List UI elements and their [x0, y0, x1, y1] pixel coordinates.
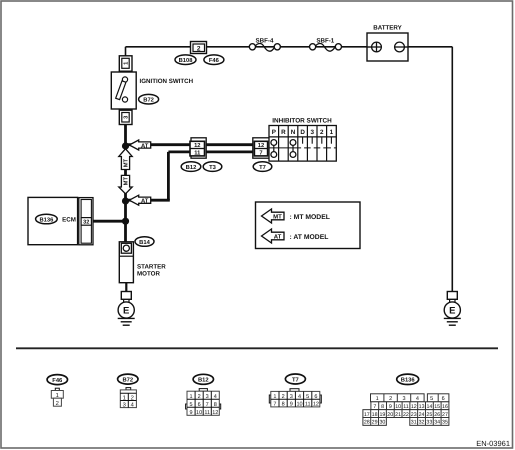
label ellipse B72 [139, 94, 159, 104]
legend AT arrow [262, 229, 285, 243]
ECM connector column [79, 198, 93, 245]
ground left (E) [118, 292, 135, 326]
pinout B72 [118, 374, 138, 409]
svg-text:F46: F46 [52, 377, 63, 384]
svg-text:28: 28 [364, 420, 370, 426]
separator line [16, 347, 498, 349]
svg-text:STARTER: STARTER [137, 264, 166, 271]
svg-text:E: E [449, 306, 455, 317]
svg-text:: AT MODEL: : AT MODEL [290, 234, 329, 241]
svg-text:B72: B72 [122, 376, 133, 383]
svg-text:3: 3 [310, 129, 314, 136]
svg-text:35: 35 [442, 420, 448, 426]
junction dot 1 [122, 142, 129, 149]
ground right (E) [444, 292, 461, 326]
pin 1 connector box [119, 56, 132, 71]
svg-text:8: 8 [282, 402, 285, 408]
label ellipse B108 [175, 55, 196, 65]
svg-text:B72: B72 [143, 97, 154, 104]
svg-text:B108: B108 [179, 57, 194, 64]
svg-text:11: 11 [194, 151, 201, 157]
svg-text:1: 1 [189, 394, 192, 400]
ECM pin 32 [81, 218, 91, 226]
svg-text:E: E [123, 306, 129, 317]
svg-text:1: 1 [123, 396, 126, 402]
label ellipse T3 [203, 162, 222, 172]
AT arrow at junction 1 [129, 140, 150, 150]
svg-text:22: 22 [403, 412, 409, 418]
svg-text:34: 34 [434, 420, 440, 426]
svg-text:4: 4 [416, 396, 419, 402]
svg-text:6: 6 [314, 394, 317, 400]
svg-text:3: 3 [402, 396, 405, 402]
svg-text:33: 33 [426, 420, 432, 426]
pinout B12 [186, 374, 221, 416]
svg-text:2: 2 [131, 395, 134, 402]
svg-text:4: 4 [298, 394, 301, 400]
svg-text:9: 9 [189, 410, 192, 416]
label ellipse F46 [204, 55, 224, 65]
label ellipse T7 [253, 162, 272, 172]
svg-text:21: 21 [395, 412, 401, 418]
svg-text:12: 12 [194, 142, 200, 149]
svg-text:2: 2 [198, 394, 201, 400]
svg-text:11: 11 [403, 404, 409, 410]
legend MT arrow [262, 209, 285, 223]
svg-text:8: 8 [214, 402, 217, 408]
svg-text:7: 7 [373, 404, 376, 410]
svg-text:ECM: ECM [62, 217, 76, 224]
svg-text:12: 12 [258, 142, 264, 149]
svg-text:T7: T7 [292, 377, 299, 383]
svg-text:N: N [291, 129, 296, 136]
svg-text:14: 14 [426, 404, 432, 410]
svg-text:5: 5 [430, 396, 433, 402]
svg-text:3: 3 [206, 394, 209, 400]
svg-text:7: 7 [273, 402, 276, 408]
legend box [256, 202, 361, 249]
wire: top supply from ignition switch to battery + [126, 46, 372, 48]
svg-text:9: 9 [290, 402, 293, 408]
svg-text:MOTOR: MOTOR [137, 271, 160, 278]
label ellipse B136 [36, 214, 58, 224]
svg-text:1: 1 [376, 396, 379, 402]
switch body [111, 72, 136, 109]
svg-text:3: 3 [123, 402, 126, 409]
svg-text:32: 32 [83, 220, 89, 226]
wire: inhibitor row2 horizontal [168, 150, 256, 153]
svg-text:: MT MODEL: : MT MODEL [290, 214, 330, 221]
svg-text:7: 7 [206, 402, 209, 408]
wire: starter motor to ground connector [125, 283, 127, 292]
inhibitor switch table [269, 118, 336, 162]
svg-text:10: 10 [196, 410, 202, 416]
svg-text:P: P [272, 129, 276, 136]
wire: ignition switch top stub [125, 47, 127, 57]
wire: right vertical down to ground [451, 47, 453, 292]
svg-text:2: 2 [389, 396, 392, 402]
svg-text:2: 2 [320, 129, 324, 136]
svg-text:D: D [300, 129, 305, 136]
pinout B136 [363, 374, 449, 426]
svg-text:5: 5 [189, 402, 192, 408]
svg-text:32: 32 [419, 420, 425, 426]
wire: vertical drop of row2 wire [167, 152, 170, 200]
svg-text:B12: B12 [186, 164, 197, 171]
svg-text:6: 6 [442, 396, 445, 402]
svg-text:12: 12 [212, 410, 218, 416]
AT arrow at junction 2 [129, 195, 150, 205]
svg-text:12: 12 [411, 404, 417, 410]
svg-text:20: 20 [387, 412, 393, 418]
svg-text:10: 10 [296, 402, 302, 408]
svg-text:AT: AT [141, 199, 149, 205]
wire: ignition pin3 down through junctions to starter motor [124, 123, 127, 243]
wire: ECM pin 32 to junction3 [93, 220, 126, 223]
svg-text:INHIBITOR SWITCH: INHIBITOR SWITCH [272, 118, 332, 125]
svg-text:B12: B12 [198, 377, 209, 384]
svg-text:3: 3 [290, 394, 293, 400]
svg-text:4: 4 [214, 394, 217, 400]
fuse SBF-1 [310, 37, 342, 51]
svg-text:T7: T7 [259, 165, 266, 171]
svg-text:5: 5 [306, 394, 309, 400]
ECM box [28, 197, 93, 244]
junction dot 3 [122, 218, 129, 225]
svg-text:B136: B136 [39, 216, 54, 223]
svg-text:7: 7 [259, 151, 262, 157]
battery + terminal [372, 42, 382, 52]
MT arrow pointing up to junction 1 [119, 149, 132, 170]
battery [367, 25, 408, 62]
svg-text:2: 2 [197, 46, 201, 53]
svg-text:MT: MT [273, 214, 282, 221]
MT arrow pointing down to junction 2 [119, 175, 132, 193]
battery - terminal [395, 42, 405, 52]
svg-text:11: 11 [305, 402, 311, 408]
svg-text:6: 6 [198, 402, 201, 408]
svg-text:31: 31 [411, 420, 417, 426]
svg-text:B14: B14 [139, 240, 150, 246]
svg-text:T3: T3 [209, 164, 217, 171]
connector B12/T3 (pins 12/11) [190, 138, 206, 158]
svg-text:MT: MT [124, 177, 130, 186]
svg-text:13: 13 [419, 404, 425, 410]
svg-text:B136: B136 [401, 377, 416, 384]
svg-text:SBF-4: SBF-4 [256, 37, 274, 44]
svg-text:12: 12 [313, 402, 319, 408]
svg-text:AT: AT [141, 143, 149, 149]
svg-text:29: 29 [372, 420, 378, 426]
pinout F46 [47, 375, 67, 407]
label ellipse B12 [181, 162, 201, 172]
starter motor [119, 242, 166, 283]
svg-text:11: 11 [204, 410, 210, 416]
svg-text:9: 9 [389, 404, 392, 410]
contact circles N column [292, 143, 294, 155]
wire: into junction2 from right [127, 199, 170, 202]
svg-text:2: 2 [282, 394, 285, 400]
svg-text:IGNITION SWITCH: IGNITION SWITCH [140, 78, 194, 85]
svg-text:F46: F46 [209, 57, 220, 64]
contact circles P column [273, 143, 275, 155]
wire: battery - to right vertical [404, 46, 452, 48]
svg-text:SBF-1: SBF-1 [316, 37, 334, 44]
connector T7 (pins 12/7) [253, 138, 269, 158]
svg-text:1: 1 [273, 394, 276, 400]
svg-text:1: 1 [330, 129, 334, 136]
svg-text:16: 16 [442, 404, 448, 410]
junction dot 2 [122, 197, 129, 204]
fuse SBF-4 [249, 37, 280, 51]
svg-text:2: 2 [56, 400, 59, 407]
svg-text:EN-03961: EN-03961 [476, 439, 510, 448]
ignition switch [111, 56, 193, 125]
svg-text:10: 10 [395, 404, 401, 410]
svg-text:BATTERY: BATTERY [373, 25, 402, 32]
contact gaps in divider D 3 2 1 [301, 147, 304, 149]
contact ticks D 3 2 1 [302, 138, 304, 144]
label ellipse B14 [135, 237, 154, 247]
pin 3 connector box [119, 110, 132, 124]
svg-text:30: 30 [379, 420, 385, 426]
connector B108/F46 box pin 2 [191, 42, 207, 54]
svg-text:MT: MT [124, 158, 130, 167]
svg-text:R: R [281, 129, 286, 136]
svg-text:8: 8 [381, 404, 384, 410]
pinout T7 [269, 374, 321, 408]
wire: junction1 to inhibitor row1 (through AT arrow and connectors) [127, 143, 256, 146]
svg-text:15: 15 [434, 404, 440, 410]
svg-text:AT: AT [274, 234, 282, 241]
